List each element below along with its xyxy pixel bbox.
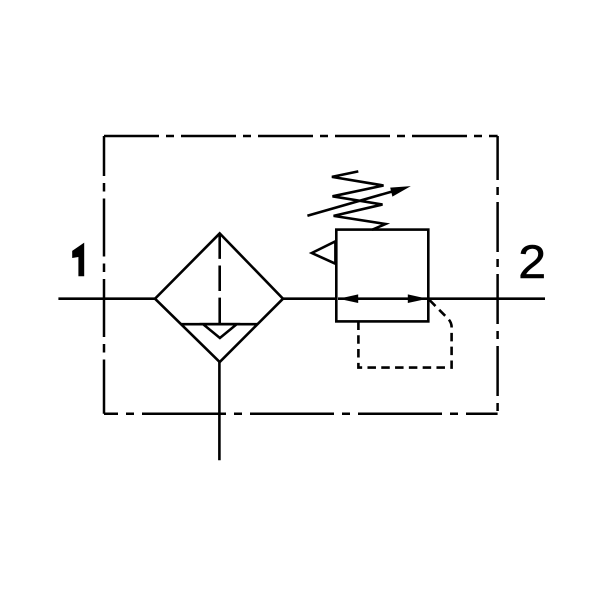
svg-text:2: 2 (518, 236, 546, 288)
